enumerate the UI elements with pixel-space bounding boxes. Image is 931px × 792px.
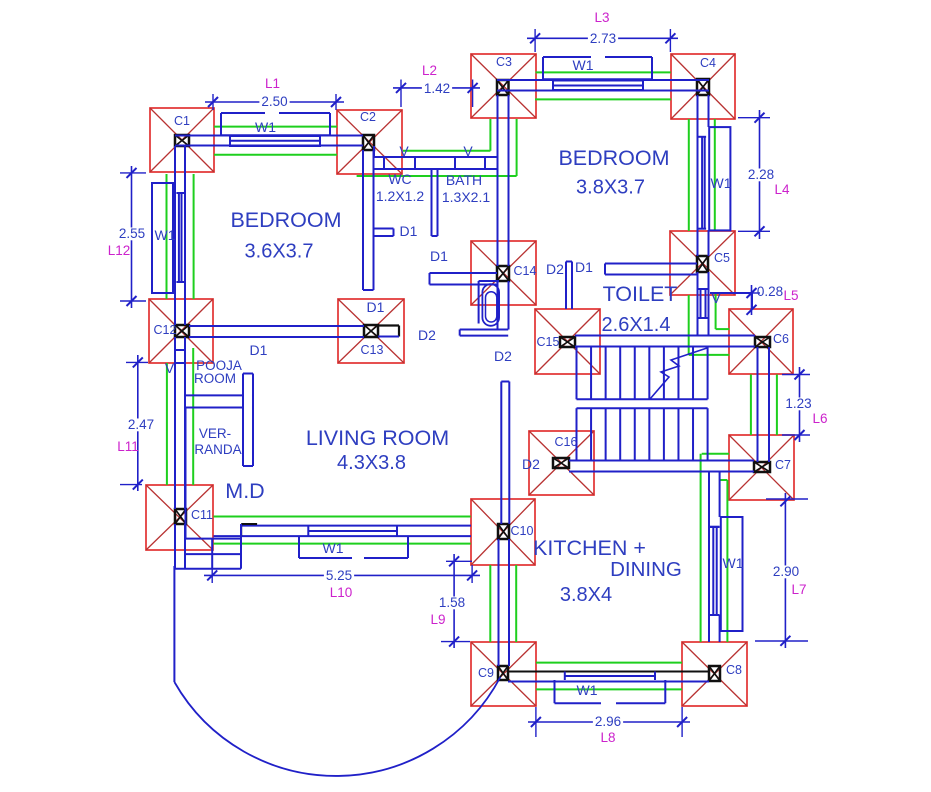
wall living-kitchen divider below D2 bbox=[500, 382, 502, 525]
column C5 bbox=[670, 231, 735, 295]
beam line left of wall C10-C9 bbox=[489, 565, 491, 642]
beam line kitchen NE jog bbox=[702, 453, 729, 455]
beam line below wall C9-C8 bbox=[536, 688, 682, 690]
column C2 bbox=[337, 110, 402, 174]
beam line left of kitchen east wall bbox=[700, 454, 702, 642]
wall C15-C6 (toilet south / stair top) bbox=[575, 335, 755, 337]
svg-text:L1: L1 bbox=[265, 76, 280, 91]
svg-text:1.58: 1.58 bbox=[439, 595, 465, 610]
svg-text:C7: C7 bbox=[775, 458, 791, 472]
door jamb D2 of toilet bbox=[565, 262, 567, 310]
svg-text:KITCHEN +: KITCHEN + bbox=[533, 536, 646, 560]
svg-text:L8: L8 bbox=[600, 730, 615, 745]
wall C8-C9 (kitchen south) black top bbox=[508, 671, 709, 673]
svg-text:3.8X4: 3.8X4 bbox=[560, 584, 612, 606]
wall C12-C11 (living west) bbox=[174, 337, 176, 509]
dimension L10 5.25 bbox=[211, 569, 213, 583]
svg-text:W1: W1 bbox=[573, 57, 594, 73]
beam line WC bottom elbow bbox=[516, 119, 518, 176]
svg-text:D1: D1 bbox=[430, 248, 448, 264]
dimension L1 2.50 bbox=[212, 94, 214, 110]
svg-text:V: V bbox=[711, 290, 721, 306]
window W1 C1-C2 outer bbox=[221, 112, 265, 114]
beam line right of wall C6-C7 bbox=[776, 375, 778, 436]
porch west edge bbox=[173, 566, 175, 682]
column C4 bbox=[671, 54, 735, 119]
beam line below wall C11-C10 bbox=[214, 543, 471, 545]
kitchen east wall jog bbox=[709, 526, 720, 528]
wall C11-C10 (living south) bottom bbox=[214, 535, 472, 537]
beam line left of wall C4-C5 bbox=[688, 119, 690, 231]
porch arc bbox=[174, 677, 500, 776]
svg-text:V: V bbox=[463, 143, 473, 159]
column C14 bbox=[471, 241, 537, 305]
svg-text:C6: C6 bbox=[773, 332, 789, 346]
door jamb D1 of WC bbox=[374, 228, 394, 230]
svg-text:C5: C5 bbox=[714, 251, 730, 265]
svg-text:D1: D1 bbox=[575, 259, 593, 275]
wall toilet north C14-C5 segment bbox=[605, 263, 697, 265]
svg-text:W1: W1 bbox=[711, 175, 732, 191]
dimension L8 2.96 bbox=[535, 707, 537, 737]
svg-text:D1: D1 bbox=[367, 299, 385, 315]
veranda east wall bbox=[242, 374, 244, 467]
svg-text:C14: C14 bbox=[514, 264, 537, 278]
window W1 C11-C10 outer bbox=[298, 536, 300, 558]
dimension L2 1.42 bbox=[400, 80, 402, 108]
stairs break line bbox=[650, 348, 707, 399]
svg-text:C3: C3 bbox=[496, 55, 512, 69]
svg-text:D2: D2 bbox=[418, 327, 436, 343]
column C6 bbox=[729, 309, 793, 374]
wall C11-C10 (living south) top bbox=[241, 525, 471, 527]
column C13 bbox=[338, 299, 404, 363]
svg-text:DINING: DINING bbox=[610, 558, 682, 581]
svg-text:M.D: M.D bbox=[225, 479, 264, 503]
beam elbow left of stairwell bbox=[688, 295, 690, 355]
column C1 bbox=[150, 108, 214, 172]
svg-text:W1: W1 bbox=[723, 555, 744, 571]
wc pan side wall bbox=[478, 281, 480, 324]
window W1 kitchen east glass bbox=[709, 526, 720, 528]
svg-text:ROOM: ROOM bbox=[194, 371, 236, 386]
svg-text:C4: C4 bbox=[700, 56, 716, 70]
beam line top-left above wall C1-C2 bbox=[214, 126, 337, 128]
stairs lower flight treads bbox=[576, 408, 578, 460]
svg-text:L4: L4 bbox=[774, 182, 790, 197]
column C3 bbox=[471, 54, 536, 118]
beam line WC top elbow bbox=[489, 119, 491, 151]
ventilator V below C12 bbox=[175, 349, 185, 351]
svg-text:L12: L12 bbox=[108, 243, 131, 258]
svg-text:0.28: 0.28 bbox=[757, 284, 783, 299]
svg-text:C9: C9 bbox=[478, 666, 494, 680]
beam line left of wall C1-C12 bbox=[166, 174, 168, 299]
dimension L12 2.55 bbox=[120, 172, 146, 174]
window W1 C9-C8 outer bbox=[554, 680, 556, 703]
column C9 bbox=[471, 642, 536, 706]
beam line below wall C3-C4 bbox=[535, 98, 671, 100]
column C7 bbox=[729, 435, 794, 500]
svg-text:C11: C11 bbox=[191, 508, 213, 522]
wall jog C5 to C6 (0.28 step) bbox=[710, 292, 752, 294]
wall step C2 to WC top bbox=[373, 146, 375, 157]
wc pan outer bbox=[482, 284, 499, 326]
svg-text:D2: D2 bbox=[494, 348, 512, 364]
svg-text:TOILET: TOILET bbox=[603, 282, 678, 306]
svg-text:D2: D2 bbox=[546, 261, 564, 277]
wall C4-C5 (bedroom2 east) bbox=[697, 95, 699, 256]
svg-text:2.28: 2.28 bbox=[748, 167, 774, 182]
beam line right of wall C1-C12 bbox=[193, 174, 195, 299]
svg-text:D1: D1 bbox=[400, 223, 418, 239]
svg-text:5.25: 5.25 bbox=[326, 568, 352, 583]
window W1 left wall glass bbox=[176, 192, 185, 194]
svg-text:2.73: 2.73 bbox=[590, 31, 616, 46]
dimension L9 1.58 bbox=[446, 560, 472, 562]
beam line left of wall C12-C11 bbox=[166, 363, 168, 485]
beam line right of kitchen east wall bbox=[720, 479, 728, 481]
beam line right of wall C10-C9 bbox=[515, 565, 517, 642]
svg-text:C15: C15 bbox=[537, 335, 560, 349]
dimension L3 2.73 bbox=[534, 29, 536, 52]
svg-text:W1: W1 bbox=[323, 540, 344, 556]
svg-text:2.96: 2.96 bbox=[595, 714, 621, 729]
wall C6-C7 (stair east) bbox=[757, 347, 759, 462]
svg-text:4.3X3.8: 4.3X3.8 bbox=[337, 452, 406, 474]
svg-text:3.8X3.7: 3.8X3.7 bbox=[576, 177, 645, 199]
window W1 C11-C10 glass bbox=[307, 526, 309, 537]
svg-text:C2: C2 bbox=[360, 110, 376, 124]
svg-text:RANDA: RANDA bbox=[194, 442, 241, 457]
dimension L5 0.28 bbox=[738, 292, 752, 294]
beam line right of wall C12-C11 bbox=[192, 348, 194, 485]
column C8 bbox=[682, 642, 747, 706]
svg-text:WC: WC bbox=[388, 171, 411, 187]
svg-text:D1: D1 bbox=[250, 342, 268, 358]
svg-text:L3: L3 bbox=[594, 10, 609, 25]
dimension L6 1.23 bbox=[782, 374, 810, 376]
veranda north line bbox=[186, 407, 244, 409]
svg-text:3.6X3.7: 3.6X3.7 bbox=[245, 241, 314, 263]
svg-text:D2: D2 bbox=[522, 456, 540, 472]
svg-text:W1: W1 bbox=[155, 227, 176, 243]
window W1 C3-C4 outer bbox=[543, 56, 591, 58]
window W1 C9-C8 glass bbox=[564, 672, 566, 681]
svg-text:1.3X2.1: 1.3X2.1 bbox=[442, 189, 490, 205]
door jamb D2 right of C13 bbox=[378, 324, 399, 326]
column C12 bbox=[149, 299, 213, 363]
dimension L4 2.28 bbox=[738, 117, 770, 119]
svg-text:V: V bbox=[165, 360, 175, 376]
wall C2 down (WC west) bbox=[362, 150, 364, 290]
svg-text:L6: L6 bbox=[812, 411, 827, 426]
svg-text:2.6X1.4: 2.6X1.4 bbox=[602, 314, 671, 336]
svg-text:LIVING ROOM: LIVING ROOM bbox=[306, 426, 449, 450]
ventilator V of BATH bbox=[454, 157, 456, 169]
svg-text:L9: L9 bbox=[430, 612, 445, 627]
wall below C11 bbox=[174, 524, 176, 570]
svg-text:2.47: 2.47 bbox=[128, 417, 154, 432]
wall C8-C9 (kitchen south) blue bottom bbox=[508, 681, 709, 683]
svg-text:BATH: BATH bbox=[446, 172, 482, 188]
svg-text:1.2X1.2: 1.2X1.2 bbox=[376, 188, 424, 204]
wall C1-C2 (bedroom1 north) bbox=[175, 135, 363, 137]
wall C3-C14 (bath east) bbox=[497, 95, 499, 266]
svg-text:C1: C1 bbox=[174, 114, 190, 128]
beam line above wall C11-C10 bbox=[214, 516, 471, 518]
beam elbow right of toilet door bbox=[715, 293, 717, 329]
svg-text:2.90: 2.90 bbox=[773, 564, 799, 579]
kitchen east wall C7-C8 bbox=[708, 472, 710, 642]
column C15 bbox=[535, 309, 600, 374]
wc platform bbox=[460, 329, 509, 331]
column C10 bbox=[471, 499, 535, 565]
svg-text:BEDROOM: BEDROOM bbox=[230, 208, 341, 232]
svg-text:1.42: 1.42 bbox=[424, 81, 450, 96]
column C16 bbox=[529, 431, 594, 495]
column C11 bbox=[146, 485, 213, 550]
main door M.D jamb bbox=[241, 523, 257, 525]
wall WC-BATH top bbox=[374, 156, 497, 158]
wall C3-C4 (bedroom2 north) bbox=[497, 79, 709, 81]
svg-text:C10: C10 bbox=[511, 524, 534, 538]
dimension L11 2.47 bbox=[126, 361, 148, 363]
window W1 kitchen east outer bbox=[721, 517, 743, 631]
svg-text:1.23: 1.23 bbox=[785, 396, 811, 411]
svg-text:W1: W1 bbox=[255, 119, 276, 135]
window W1 right wall glass bbox=[698, 136, 706, 138]
svg-text:L10: L10 bbox=[330, 585, 353, 600]
window W1 C3-C4 sill bbox=[553, 81, 643, 91]
svg-text:C16: C16 bbox=[555, 435, 578, 449]
wall C16-C7 (kitchen north) bbox=[569, 460, 754, 462]
svg-text:2.50: 2.50 bbox=[261, 94, 287, 109]
svg-text:L2: L2 bbox=[422, 63, 437, 78]
beam line left of wall C6-C7 bbox=[750, 375, 752, 436]
ventilator V of WC bbox=[383, 157, 385, 169]
stairs upper flight treads bbox=[576, 347, 578, 400]
wc pan inner bbox=[486, 292, 497, 322]
svg-text:VER-: VER- bbox=[199, 426, 231, 441]
svg-text:C13: C13 bbox=[361, 343, 384, 357]
wall C10 down to C9 (kitchen west) bbox=[498, 539, 500, 666]
svg-text:BEDROOM: BEDROOM bbox=[558, 146, 669, 170]
svg-text:L11: L11 bbox=[117, 439, 139, 454]
wall C1-C12 (bedroom1 west) bbox=[174, 146, 176, 325]
beam line above wall C3-C4 bbox=[536, 71, 671, 73]
beam line above wall C9-C8 bbox=[536, 662, 682, 664]
svg-text:C12: C12 bbox=[154, 323, 177, 337]
pooja platform line bbox=[185, 394, 243, 396]
ventilator V below C5 bbox=[698, 288, 709, 290]
svg-text:C8: C8 bbox=[726, 663, 742, 677]
window W1 C1-C2 sill bbox=[230, 136, 320, 146]
svg-text:L7: L7 bbox=[791, 582, 806, 597]
beam line top-left below wall C1-C2 bbox=[214, 154, 337, 156]
svg-text:2.55: 2.55 bbox=[119, 226, 145, 241]
wall C5 down to toilet south bbox=[697, 272, 699, 336]
wall BATH south to C14 bbox=[430, 272, 498, 274]
svg-text:W1: W1 bbox=[577, 682, 598, 698]
wall WC-BATH divider bbox=[431, 169, 433, 236]
stairs mid landing lines bbox=[577, 398, 708, 400]
entry steps below C11 bbox=[186, 538, 242, 540]
beam line right of wall C4-C5 bbox=[714, 119, 716, 231]
wall C14 to platform bbox=[497, 281, 499, 330]
window W1 left wall outer bbox=[152, 183, 173, 293]
svg-text:V: V bbox=[399, 143, 409, 159]
svg-text:L5: L5 bbox=[783, 288, 798, 303]
window W1 right wall outer bbox=[709, 127, 730, 230]
wall C12-C13 (bedroom1 south) bbox=[189, 325, 364, 327]
veranda west wall bbox=[185, 408, 187, 539]
dimension L7 2.90 bbox=[766, 498, 808, 500]
